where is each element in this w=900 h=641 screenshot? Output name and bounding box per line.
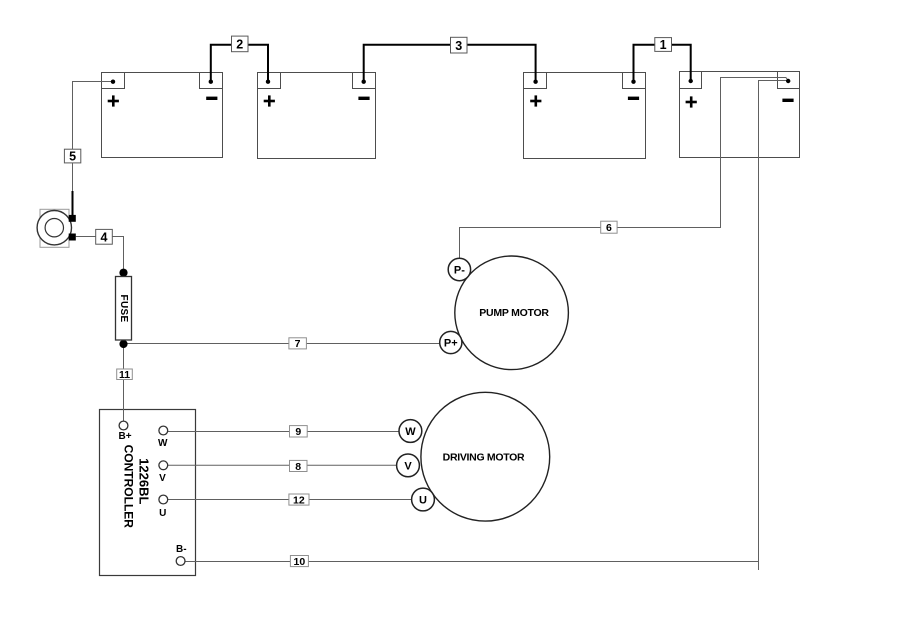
svg-text:B-: B- bbox=[176, 544, 187, 555]
svg-text:7: 7 bbox=[295, 338, 301, 350]
svg-text:W: W bbox=[158, 438, 168, 449]
svg-text:V: V bbox=[404, 460, 412, 472]
svg-text:U: U bbox=[159, 508, 166, 519]
svg-text:DRIVING MOTOR: DRIVING MOTOR bbox=[443, 452, 525, 464]
svg-text:1: 1 bbox=[660, 38, 667, 52]
svg-text:1226BL: 1226BL bbox=[136, 458, 151, 504]
svg-text:FUSE: FUSE bbox=[118, 295, 129, 323]
svg-text:3: 3 bbox=[455, 39, 462, 53]
svg-text:9: 9 bbox=[295, 426, 301, 438]
svg-text:PUMP MOTOR: PUMP MOTOR bbox=[479, 307, 549, 319]
svg-text:12: 12 bbox=[293, 494, 305, 506]
svg-text:U: U bbox=[419, 494, 427, 506]
svg-text:2: 2 bbox=[236, 38, 243, 52]
svg-text:P-: P- bbox=[454, 264, 465, 276]
svg-text:11: 11 bbox=[119, 369, 130, 381]
svg-text:10: 10 bbox=[294, 556, 306, 568]
svg-text:V: V bbox=[159, 473, 166, 484]
svg-text:W: W bbox=[405, 426, 416, 438]
svg-text:6: 6 bbox=[606, 222, 612, 234]
svg-text:8: 8 bbox=[295, 461, 301, 473]
svg-text:P+: P+ bbox=[444, 337, 458, 349]
svg-text:5: 5 bbox=[69, 150, 76, 164]
svg-text:CONTROLLER: CONTROLLER bbox=[122, 445, 136, 529]
svg-text:B+: B+ bbox=[118, 431, 131, 442]
svg-text:4: 4 bbox=[101, 230, 108, 244]
